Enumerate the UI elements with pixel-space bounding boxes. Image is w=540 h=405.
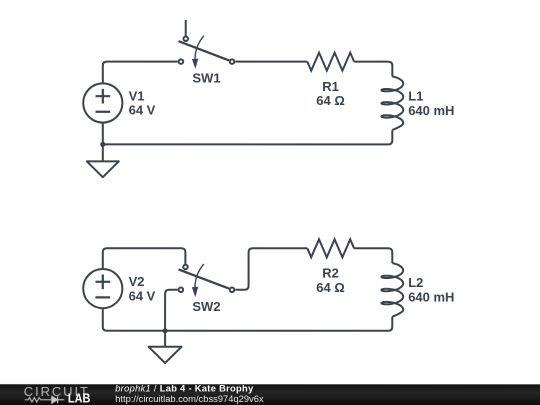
wire SW2 right riser to R2 [235, 248, 307, 290]
logo diode [52, 396, 65, 403]
ground (bottom circuit) [149, 331, 182, 363]
wire R2 to L2 top [354, 248, 392, 263]
svg-text:640 mH: 640 mH [408, 290, 454, 305]
svg-text:L1: L1 [408, 88, 423, 103]
svg-text:V1: V1 [129, 88, 145, 103]
wire V1 bottom [102, 123, 104, 144]
junction dot bottom circuit [162, 328, 167, 333]
voltage source V1 [83, 83, 122, 122]
logo resistor zigzag [25, 398, 52, 402]
svg-text:brophk1 / Lab 4 - Kate Brophy: brophk1 / Lab 4 - Kate Brophy [115, 382, 254, 393]
wire L2 bottom rail to V2 [103, 309, 393, 331]
wire L1 bottom rail to V1 [103, 130, 393, 144]
inductor L2 [381, 263, 403, 317]
wire SW2 left throw to ground junction [165, 290, 178, 331]
voltage source V2 [83, 269, 122, 308]
svg-text:V2: V2 [129, 274, 145, 289]
svg-text:L2: L2 [408, 275, 423, 290]
svg-text:SW2: SW2 [192, 299, 220, 314]
switch SW1 [179, 20, 235, 69]
svg-text:64 V: 64 V [129, 103, 156, 118]
wire V1 top to SW1 left [103, 62, 178, 83]
switch SW2 [178, 264, 234, 297]
wire R1 to L1 top [354, 62, 392, 77]
footer bar [0, 384, 540, 405]
svg-text:http://circuitlab.com/cbss974q: http://circuitlab.com/cbss974q29v6x [115, 393, 264, 404]
wire SW1 right to R1 [235, 61, 307, 63]
wire V2 top to SW2 top [103, 248, 186, 268]
resistor R1 [307, 53, 354, 71]
svg-text:R2: R2 [322, 266, 339, 281]
svg-text:640 mH: 640 mH [408, 103, 454, 118]
ground (top circuit) [87, 144, 119, 177]
svg-text:LAB: LAB [68, 391, 91, 405]
svg-text:64 Ω: 64 Ω [316, 93, 345, 108]
svg-text:SW1: SW1 [192, 71, 220, 86]
resistor R2 [307, 239, 354, 257]
svg-text:64 Ω: 64 Ω [316, 280, 345, 295]
inductor L1 [381, 76, 403, 130]
svg-text:64 V: 64 V [129, 288, 156, 303]
junction dot top circuit [100, 142, 105, 147]
svg-text:R1: R1 [322, 79, 339, 94]
